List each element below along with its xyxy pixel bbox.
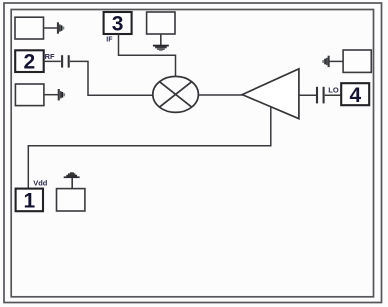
svg-text:4: 4 <box>350 84 362 107</box>
capacitor C-LO <box>317 87 324 104</box>
wire <box>71 178 73 189</box>
wire <box>44 60 61 62</box>
wire <box>44 94 58 96</box>
port box 2 <box>15 50 44 72</box>
wire cap to box4 <box>325 94 342 96</box>
antenna (umbrella symbol) <box>64 172 80 178</box>
svg-text:IF: IF <box>106 36 113 43</box>
svg-text:2: 2 <box>24 51 36 74</box>
probe cone (right-pointing) <box>57 22 64 33</box>
svg-text:Vdd: Vdd <box>33 179 48 188</box>
wire RF to mixer <box>70 61 153 95</box>
svg-text:RF: RF <box>45 52 55 61</box>
wire amp to Vdd port <box>28 106 270 188</box>
capacitor C-RF <box>62 55 69 67</box>
mixer X1 <box>153 76 199 112</box>
wire <box>44 27 58 29</box>
pad P3 (top bond pad) <box>147 12 175 34</box>
wire <box>329 60 343 62</box>
wire <box>160 34 162 45</box>
probe cone (right-pointing) <box>58 89 65 100</box>
amplifier A1 (left-pointing triangle) <box>242 69 299 119</box>
svg-text:1: 1 <box>23 190 35 213</box>
pad P5 (bottom bond pad) <box>57 189 85 211</box>
pad P1 (top-left bond pad) <box>15 17 44 39</box>
port box 4 <box>341 83 369 105</box>
wire IF to mixer <box>119 34 176 77</box>
wire mixer to amp <box>198 94 243 96</box>
svg-text:LO: LO <box>328 85 339 94</box>
pad P2 (left bond pad) <box>15 84 44 106</box>
probe cone (left-pointing) <box>322 56 329 67</box>
svg-text:3: 3 <box>112 13 124 36</box>
ground <box>153 45 169 51</box>
pad P4 (top-right bond pad) <box>343 50 371 72</box>
wire amp to cap <box>299 94 316 96</box>
port box 3 <box>104 12 132 34</box>
port box 1 <box>16 189 43 212</box>
